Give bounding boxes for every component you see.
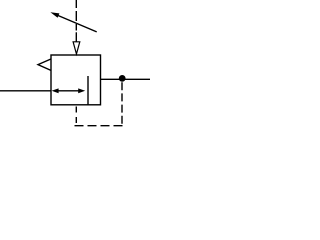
pilot line (dashed, down from junction) xyxy=(121,82,123,124)
regulator body (valve box) xyxy=(51,55,101,105)
relief triangle (left of box) xyxy=(38,59,51,71)
pilot line (dashed, top vertical) xyxy=(75,0,77,31)
wire (outlet line, right) xyxy=(101,78,151,80)
pilot line (dashed, up to box bottom) xyxy=(75,107,77,124)
node (junction dot on outlet) xyxy=(119,75,126,82)
internal sensing line (vertical, inside box) xyxy=(87,76,89,105)
flow-path arrow (double-headed, inside box) xyxy=(52,88,86,93)
pilot line (dashed, bottom horizontal) xyxy=(75,125,123,127)
spring arrow (hollow, pointing into box) xyxy=(73,42,80,54)
adjustability arrow (diagonal) xyxy=(50,12,96,32)
spring adjustment stem xyxy=(75,32,77,42)
wire (inlet line, left) xyxy=(0,90,51,92)
